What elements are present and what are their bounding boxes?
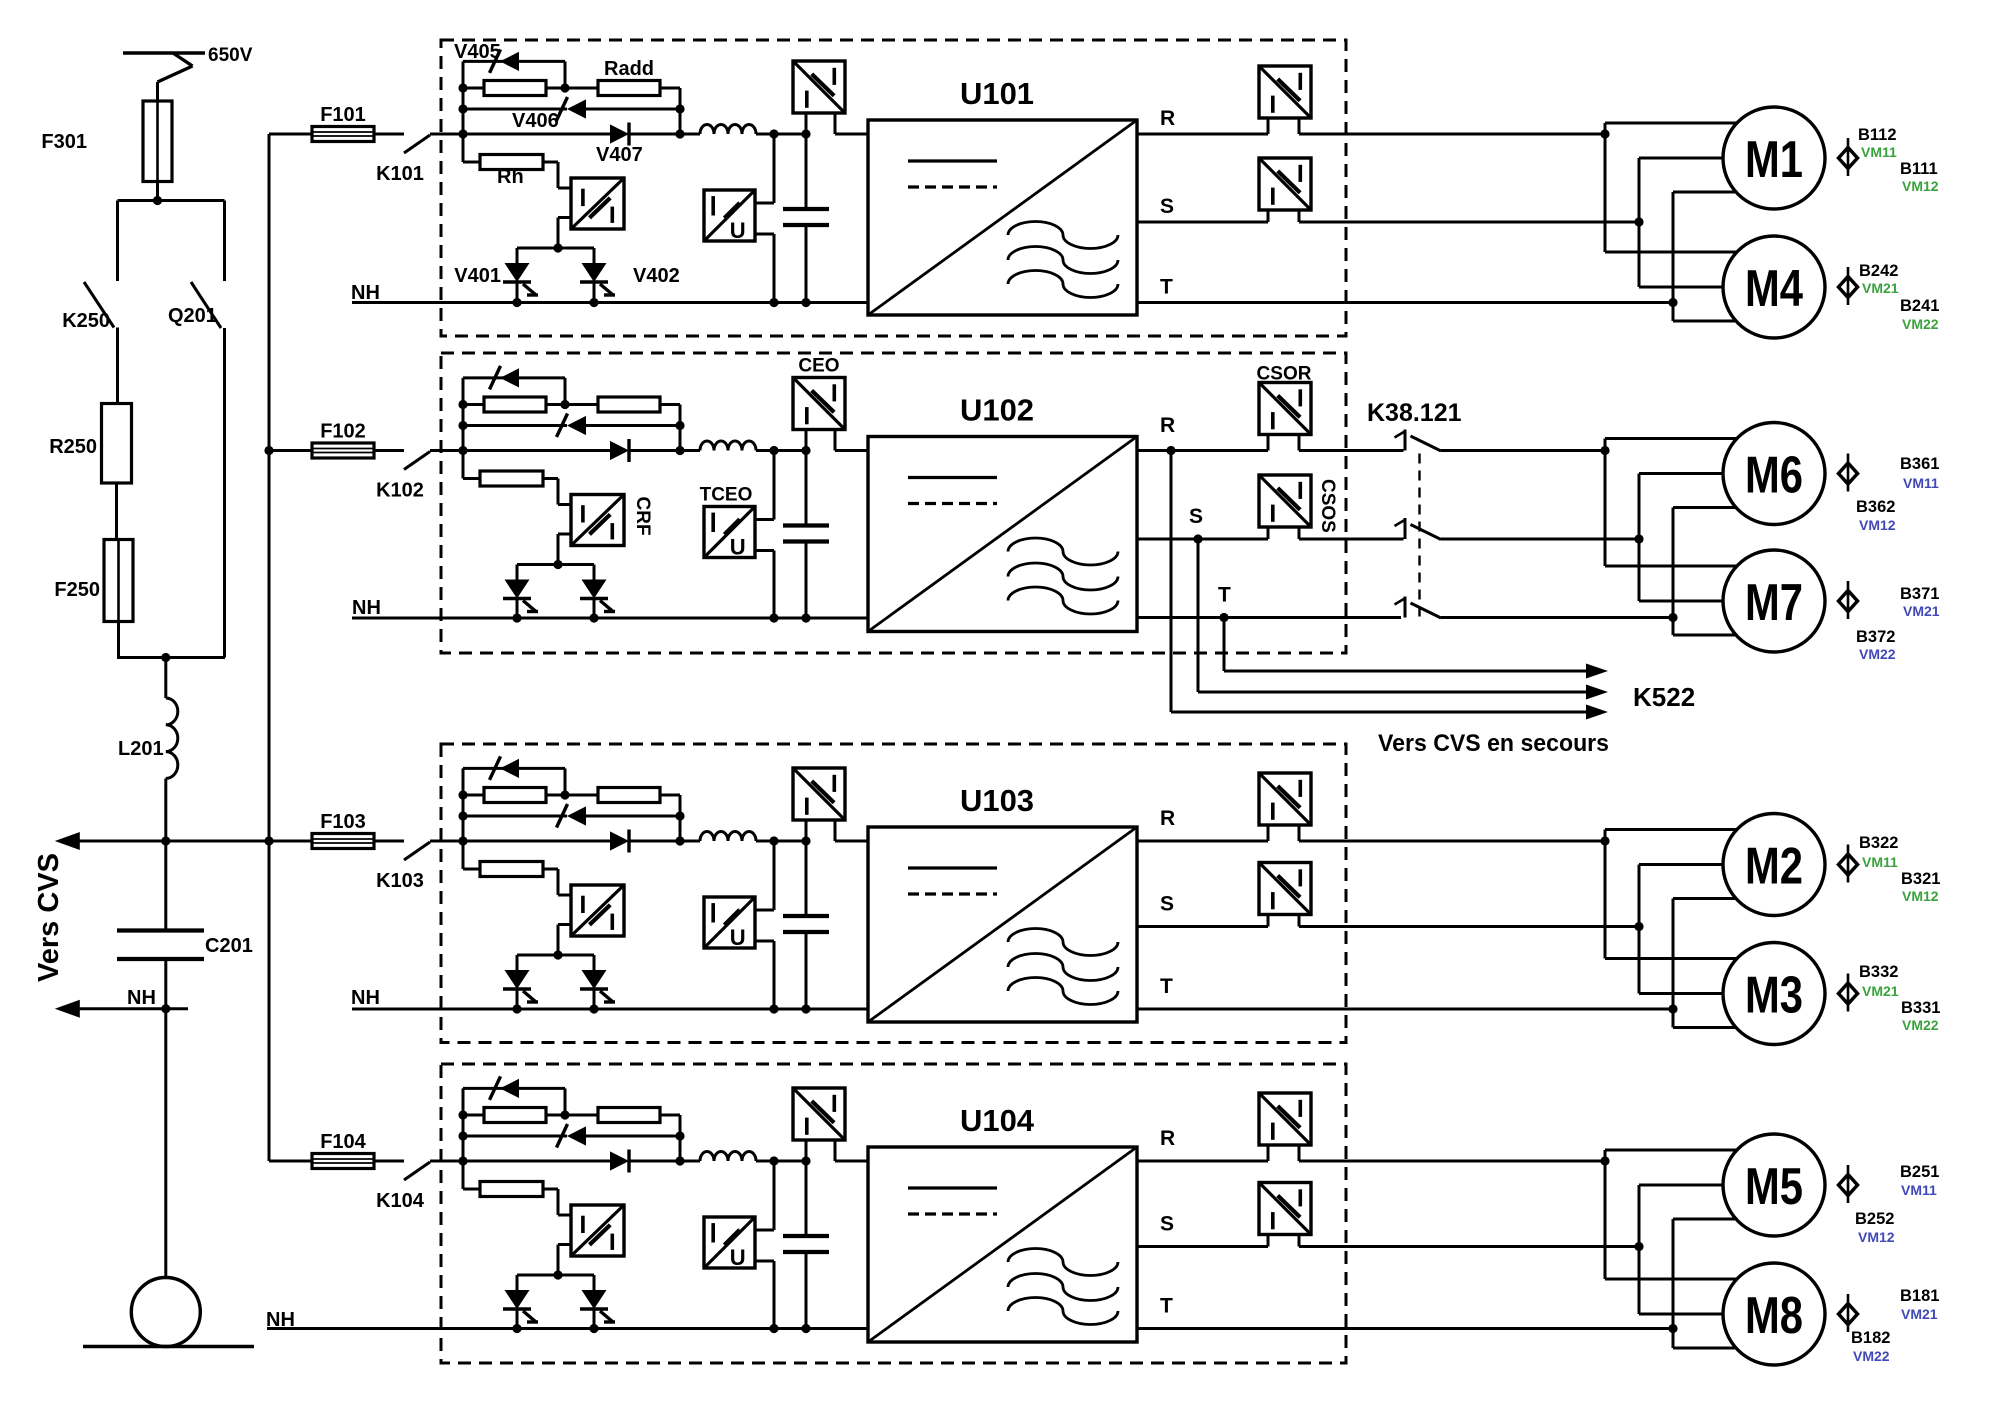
wire — [116, 201, 119, 282]
inverter U102 — [868, 437, 1137, 632]
node — [801, 836, 810, 845]
svg-text:K522: K522 — [1633, 682, 1695, 712]
svg-text:R: R — [1160, 807, 1175, 830]
series diode — [463, 840, 610, 843]
svg-text:M7: M7 — [1745, 574, 1803, 632]
arrow K522 (from T) — [1586, 664, 1608, 679]
DC link capacitor — [805, 451, 808, 526]
wire — [558, 923, 571, 926]
wire — [462, 378, 465, 479]
wire — [430, 1160, 463, 1163]
node phase S junction (M5/M8) — [1634, 1242, 1643, 1251]
node T tap — [1219, 613, 1228, 622]
inverter U101 — [868, 120, 1137, 315]
svg-text:VM11: VM11 — [1861, 144, 1897, 160]
svg-text:B322: B322 — [1859, 834, 1898, 852]
wire — [543, 1188, 558, 1191]
wire — [118, 199, 225, 202]
wire — [517, 1274, 594, 1277]
svg-text:B331: B331 — [1901, 999, 1940, 1017]
svg-text:B372: B372 — [1856, 628, 1895, 646]
phase S wire to motors — [1299, 1245, 1639, 1248]
fuse F250 — [104, 540, 133, 622]
current sensor I/I (crowbar) — [571, 885, 624, 936]
motor M6 — [1723, 423, 1825, 525]
wire — [517, 563, 594, 566]
additional resistor — [598, 1108, 660, 1123]
wire — [543, 868, 558, 871]
crowbar thyristor — [516, 565, 519, 580]
converter block U104 dashed enclosure — [441, 1064, 1346, 1363]
speed sensor (M2) — [1847, 845, 1850, 883]
resistor Rh — [463, 161, 480, 164]
svg-text:NH: NH — [127, 987, 156, 1009]
svg-text:VM11: VM11 — [1901, 1182, 1937, 1198]
node phase T junction (M6/M7) — [1668, 613, 1677, 622]
motor M1 — [1723, 107, 1825, 209]
node — [769, 1324, 778, 1333]
svg-text:F103: F103 — [320, 811, 366, 833]
node — [769, 1156, 778, 1165]
node — [458, 421, 467, 430]
svg-text:Vers CVS: Vers CVS — [33, 853, 65, 982]
svg-text:B371: B371 — [1900, 585, 1939, 603]
wire — [564, 61, 567, 88]
switch K38.121 phase S — [1404, 518, 1407, 539]
phase S output wire — [1137, 221, 1268, 224]
svg-text:K102: K102 — [376, 480, 424, 502]
switch K103 — [374, 840, 404, 843]
node — [458, 104, 467, 113]
node — [675, 1131, 684, 1140]
wire — [679, 795, 682, 841]
wire — [1604, 1150, 1607, 1279]
phase S output wire — [1137, 925, 1268, 928]
wire — [835, 133, 868, 136]
arrow NH return — [55, 1000, 80, 1018]
phase R current sensor CSOR — [1259, 383, 1311, 435]
node phase S junction (M6/M7) — [1634, 534, 1643, 543]
svg-text:U: U — [730, 218, 746, 243]
phase R wire to motors — [1299, 133, 1605, 136]
node — [675, 446, 684, 455]
svg-text:VM12: VM12 — [1859, 517, 1896, 533]
NH return wire — [352, 301, 868, 304]
bypass diode — [463, 1135, 567, 1138]
svg-text:R250: R250 — [49, 436, 97, 458]
svg-text:T: T — [1160, 975, 1173, 998]
node — [560, 83, 569, 92]
wire — [156, 82, 159, 101]
phase T output wire — [1137, 1008, 1673, 1011]
node — [769, 129, 778, 138]
svg-text:NH: NH — [351, 987, 380, 1009]
wire — [78, 840, 313, 843]
phase R current sensor — [1259, 1093, 1311, 1145]
wire — [755, 1229, 774, 1232]
node — [458, 400, 467, 409]
arrow K522 (from R) — [1586, 705, 1608, 720]
svg-text:B111: B111 — [1900, 160, 1938, 178]
precharge resistor — [484, 397, 546, 412]
svg-text:V402: V402 — [633, 265, 680, 287]
svg-text:F101: F101 — [320, 104, 366, 126]
wire — [462, 768, 465, 869]
svg-text:M6: M6 — [1745, 447, 1803, 505]
motor M7 — [1723, 550, 1825, 652]
wire — [543, 161, 558, 164]
crowbar thyristor — [593, 565, 596, 580]
voltage sensor I/U — [704, 897, 755, 948]
wire — [756, 840, 806, 843]
wire — [773, 451, 776, 520]
converter block U102 dashed enclosure — [441, 353, 1346, 653]
phase T output wire — [1137, 1327, 1673, 1330]
svg-text:VM12: VM12 — [1902, 178, 1939, 194]
crowbar thyristor — [516, 955, 519, 970]
node — [512, 298, 521, 307]
fuse F103 — [269, 840, 313, 843]
svg-text:F250: F250 — [54, 579, 100, 601]
phase S output wire — [1137, 538, 1268, 541]
svg-text:VM22: VM22 — [1853, 1348, 1890, 1364]
diode V405 — [500, 52, 519, 71]
node — [675, 836, 684, 845]
wire — [1638, 1185, 1641, 1314]
phase R wire to motors — [1299, 449, 1404, 452]
wire — [430, 133, 463, 136]
wire — [558, 533, 571, 536]
svg-text:S: S — [1160, 893, 1174, 916]
NH return wire — [352, 617, 868, 620]
wire — [564, 378, 567, 405]
node — [675, 104, 684, 113]
wire — [1604, 830, 1607, 959]
current sensor I/I (crowbar) — [571, 1205, 624, 1256]
svg-text:NH: NH — [266, 1309, 295, 1331]
wire — [463, 403, 484, 406]
wire — [463, 794, 484, 797]
wire — [756, 449, 806, 452]
wire — [463, 1087, 565, 1090]
precharge resistor — [484, 1108, 546, 1123]
mechanical link (dashed) — [1418, 454, 1420, 622]
svg-text:CSOS: CSOS — [1317, 479, 1338, 533]
svg-text:B332: B332 — [1859, 963, 1898, 981]
wire — [1638, 474, 1641, 602]
svg-text:F102: F102 — [320, 421, 366, 443]
wire — [1638, 865, 1641, 994]
node — [458, 83, 467, 92]
svg-text:M2: M2 — [1745, 838, 1803, 896]
capacitor C201 — [117, 928, 204, 932]
node — [675, 811, 684, 820]
svg-text:NH: NH — [351, 282, 380, 304]
DC link capacitor — [805, 134, 808, 209]
node — [675, 421, 684, 430]
phase S current sensor CSOS — [1259, 475, 1311, 527]
node — [560, 400, 569, 409]
svg-text:B181: B181 — [1900, 1287, 1939, 1305]
wire — [1672, 508, 1675, 636]
node — [769, 298, 778, 307]
svg-text:B362: B362 — [1856, 498, 1895, 516]
phase S wire to motors — [1299, 538, 1404, 541]
svg-text:S: S — [1189, 505, 1203, 528]
node — [675, 129, 684, 138]
svg-text:U: U — [730, 925, 746, 950]
wire — [430, 449, 463, 452]
svg-text:CRF: CRF — [632, 497, 653, 536]
wire — [773, 134, 776, 203]
node — [589, 613, 598, 622]
node — [553, 1270, 562, 1279]
resistor R250 — [102, 404, 132, 484]
svg-text:B112: B112 — [1858, 126, 1897, 144]
node — [512, 1324, 521, 1333]
svg-text:V406: V406 — [512, 110, 559, 132]
svg-text:K101: K101 — [376, 163, 424, 185]
svg-text:VM22: VM22 — [1902, 316, 1939, 332]
node — [589, 1324, 598, 1333]
node — [560, 790, 569, 799]
motor M3 — [1723, 943, 1825, 1045]
svg-text:VM21: VM21 — [1862, 983, 1899, 999]
switch K38.121 phase R — [1404, 430, 1407, 451]
node — [458, 129, 467, 138]
wire — [558, 216, 571, 219]
node — [769, 836, 778, 845]
speed sensor (M3) — [1847, 974, 1850, 1012]
filter inductor — [700, 125, 756, 134]
svg-text:650V: 650V — [208, 45, 253, 66]
wire — [164, 779, 167, 842]
wire — [223, 328, 226, 658]
node — [553, 560, 562, 569]
node — [675, 1156, 684, 1165]
wire T tap to K522 — [1223, 618, 1226, 672]
phase T output wire — [1137, 616, 1401, 619]
wire — [835, 840, 868, 843]
DC link current sensor — [793, 768, 845, 820]
phase R wire to motors — [1299, 1160, 1605, 1163]
additional resistor — [598, 397, 660, 412]
DC link capacitor — [805, 841, 808, 916]
wire — [463, 376, 565, 379]
fuse F101 — [269, 133, 313, 136]
node — [801, 1156, 810, 1165]
node — [512, 613, 521, 622]
svg-text:VM21: VM21 — [1901, 1306, 1938, 1322]
wire — [1604, 439, 1607, 567]
svg-text:B242: B242 — [1859, 262, 1898, 280]
wire — [517, 247, 594, 250]
svg-text:U: U — [730, 1245, 746, 1270]
wire — [164, 841, 167, 931]
wire — [164, 959, 167, 1009]
svg-text:K250: K250 — [62, 310, 110, 332]
wire — [755, 909, 774, 912]
node — [589, 1004, 598, 1013]
DC link capacitor — [805, 1161, 808, 1236]
svg-text:VM22: VM22 — [1859, 646, 1896, 662]
svg-text:M5: M5 — [1745, 1158, 1803, 1216]
node — [769, 1004, 778, 1013]
NH return wire — [267, 1327, 868, 1330]
phase R current sensor — [1259, 66, 1311, 118]
node R tap — [1166, 446, 1175, 455]
resistor Radd — [598, 81, 660, 96]
node — [161, 1004, 170, 1013]
node — [801, 298, 810, 307]
node — [589, 298, 598, 307]
node — [512, 1004, 521, 1013]
overvoltage diode — [500, 368, 519, 387]
switch K250 — [84, 282, 114, 328]
node — [264, 446, 273, 455]
crowbar thyristor — [593, 1275, 596, 1290]
wire — [558, 1243, 571, 1246]
svg-text:M8: M8 — [1745, 1287, 1803, 1345]
bypass diode — [463, 424, 567, 427]
svg-text:B252: B252 — [1855, 1210, 1894, 1228]
svg-text:R: R — [1160, 107, 1175, 130]
wire — [463, 87, 484, 90]
svg-text:K38.121: K38.121 — [1367, 399, 1462, 427]
crowbar thyristor — [593, 955, 596, 970]
feeder bus wire — [268, 134, 271, 1161]
wire — [835, 1160, 868, 1163]
node phase R junction (M1/M4) — [1600, 129, 1609, 138]
svg-text:M3: M3 — [1745, 967, 1803, 1025]
phase S wire to motors — [1299, 925, 1639, 928]
wire — [156, 182, 159, 201]
filter inductor — [700, 441, 756, 450]
wire S tap to K522 — [1197, 539, 1200, 692]
node phase S junction (M2/M3) — [1634, 922, 1643, 931]
svg-text:VM21: VM21 — [1862, 280, 1899, 296]
node phase R junction (M5/M8) — [1600, 1156, 1609, 1165]
node — [801, 129, 810, 138]
wire — [462, 1088, 465, 1189]
crowbar resistor — [463, 1188, 480, 1191]
inverter U103 — [868, 827, 1137, 1022]
wire — [564, 1088, 567, 1115]
phase R output wire — [1137, 1160, 1268, 1163]
bypass diode — [463, 815, 567, 818]
node phase S junction (M1/M4) — [1634, 217, 1643, 226]
current sensor I/I (crowbar) — [571, 178, 624, 229]
node — [458, 1156, 467, 1165]
switch K38.121 phase T — [1404, 597, 1407, 618]
node — [458, 836, 467, 845]
motor M5 — [1723, 1134, 1825, 1236]
650V overhead supply symbol — [123, 51, 205, 54]
node — [458, 811, 467, 820]
speed sensor (M8) — [1847, 1294, 1850, 1332]
node phase R junction (M2/M3) — [1600, 836, 1609, 845]
svg-text:TCEO: TCEO — [700, 485, 753, 506]
arrow K522 (from S) — [1586, 685, 1608, 700]
wire — [1604, 123, 1607, 252]
svg-text:VM12: VM12 — [1902, 888, 1939, 904]
wire — [1672, 899, 1675, 1028]
node — [769, 613, 778, 622]
voltage sensor I/U — [704, 190, 755, 241]
diode V407 — [463, 133, 610, 136]
filter inductor — [700, 1152, 756, 1162]
node — [264, 836, 273, 845]
svg-text:B361: B361 — [1900, 455, 1939, 473]
NH return wire — [352, 1008, 868, 1011]
svg-text:K104: K104 — [376, 1190, 425, 1212]
wire — [1672, 1219, 1675, 1348]
filter inductor — [700, 832, 756, 842]
svg-text:Vers CVS en secours: Vers CVS en secours — [1378, 730, 1609, 757]
svg-text:U102: U102 — [960, 393, 1034, 428]
svg-text:U104: U104 — [960, 1103, 1035, 1138]
wire — [463, 1114, 484, 1117]
svg-text:U101: U101 — [960, 76, 1034, 111]
fuse F104 — [269, 1160, 313, 1163]
thyristor V401 — [516, 248, 519, 263]
svg-text:S: S — [1160, 195, 1174, 218]
phase R wire to motors — [1299, 840, 1605, 843]
node phase T junction (M2/M3) — [1668, 1004, 1677, 1013]
node — [769, 446, 778, 455]
motor M8 — [1723, 1263, 1825, 1365]
node — [458, 790, 467, 799]
node — [801, 613, 810, 622]
current sensor I/I (crowbar) — [571, 495, 624, 546]
wire — [430, 840, 463, 843]
wire — [463, 767, 565, 770]
svg-text:CSOR: CSOR — [1257, 364, 1312, 385]
svg-text:V401: V401 — [454, 265, 501, 287]
wire — [517, 954, 594, 957]
wire — [1672, 192, 1675, 321]
node — [153, 196, 162, 205]
motor M4 — [1723, 236, 1825, 338]
phase T output wire — [1137, 301, 1673, 304]
crowbar resistor — [463, 868, 480, 871]
phase S current sensor — [1259, 158, 1311, 210]
svg-text:V405: V405 — [454, 41, 501, 63]
precharge resistor — [484, 81, 546, 96]
voltage sensor I/U — [704, 1217, 755, 1268]
svg-text:VM21: VM21 — [1903, 603, 1940, 619]
svg-text:F104: F104 — [320, 1131, 366, 1153]
arrow Vers CVS (DC out) — [55, 832, 80, 850]
wire — [462, 61, 465, 162]
wire — [756, 1160, 806, 1163]
svg-text:M4: M4 — [1745, 260, 1803, 318]
svg-text:R: R — [1160, 1127, 1175, 1150]
crowbar thyristor — [516, 1275, 519, 1290]
crowbar resistor — [463, 477, 480, 480]
fuse F102 — [269, 449, 313, 452]
overvoltage diode — [500, 759, 519, 778]
additional resistor — [598, 788, 660, 803]
node — [553, 950, 562, 959]
switch Q201 (disconnector) — [191, 282, 221, 328]
wire — [773, 841, 776, 910]
svg-text:U: U — [730, 534, 746, 559]
svg-text:Rh: Rh — [497, 166, 524, 188]
phase S output wire — [1137, 1245, 1268, 1248]
phase R output wire — [1137, 840, 1268, 843]
fuse F301 — [143, 101, 172, 182]
